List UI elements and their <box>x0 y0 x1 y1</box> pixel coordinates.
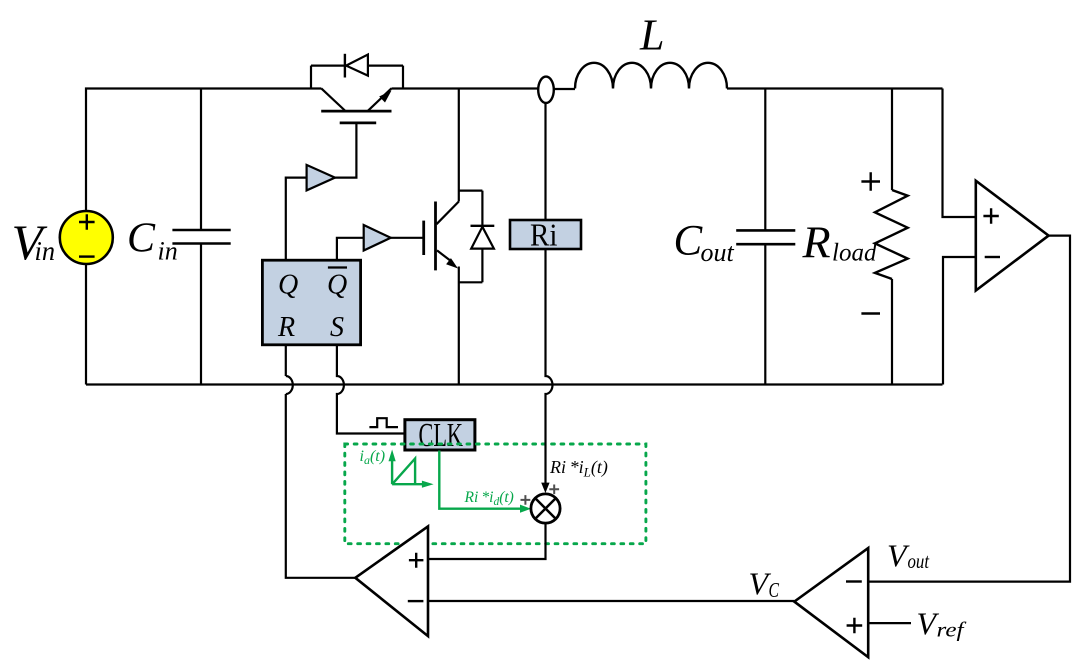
wire diode D2 vertical <box>481 191 483 283</box>
svg-text:C: C <box>127 216 156 262</box>
wire buffer B1 to IGBT1 gate <box>335 123 356 178</box>
wire op-amp output to error amp - input <box>868 236 1070 582</box>
wire emitter to diode D2 bottom <box>459 281 483 283</box>
wire Rload bottom <box>891 279 893 385</box>
svg-text:in: in <box>158 237 178 266</box>
transistor Q1 (IGBT series switch) <box>321 88 391 123</box>
green arrowhead into summer <box>520 505 531 513</box>
wire current sense upper <box>544 103 546 220</box>
wire current sense lower with hop <box>546 249 553 488</box>
wire S line to CLK with hop <box>337 345 405 434</box>
voltage source Vin <box>60 211 113 264</box>
buffer B1 <box>307 165 335 191</box>
arrowhead into summer top <box>541 483 549 493</box>
plus sign above-right of summer <box>549 485 559 495</box>
svg-text:R: R <box>277 312 295 343</box>
wire bottom bus <box>86 383 943 385</box>
svg-text:R: R <box>802 217 831 268</box>
wire comparator output to R <box>286 345 356 578</box>
wire Vin bottom <box>85 264 87 385</box>
plus sign above Rload <box>861 172 880 191</box>
svg-text:load: load <box>832 240 877 267</box>
minus sign below Rload <box>861 312 880 314</box>
svg-text:Ri *iL(t): Ri *iL(t) <box>549 457 608 480</box>
RS flip-flop U1 <box>262 260 360 345</box>
svg-text:Q: Q <box>327 270 347 301</box>
wire IGBT2 collector drop <box>458 89 460 202</box>
wire collector to diode D2 top <box>459 190 483 192</box>
error amplifier U4 <box>794 548 868 657</box>
wire diode D1 branch <box>311 64 403 66</box>
wire op-amp - input <box>943 257 976 385</box>
wire top bus left (Vin to switch) <box>86 89 321 212</box>
wire buffer B2 to IGBT2 gate <box>391 237 424 239</box>
wire Cout bottom <box>764 244 766 384</box>
comparator U2 <box>355 526 428 636</box>
wire Cin top <box>200 89 202 231</box>
transistor Q2 (IGBT freewheel switch) <box>424 202 459 271</box>
wire Cout top <box>764 89 766 231</box>
hop of R line over bus <box>286 376 293 394</box>
svg-text:Q: Q <box>278 270 298 301</box>
plus sign left of summer <box>521 495 531 505</box>
clock CLK box <box>405 420 475 450</box>
inductor L <box>575 63 727 89</box>
ramp sawtooth <box>393 459 415 485</box>
sense resistor Ri box <box>510 220 581 249</box>
svg-text:Ri: Ri <box>530 217 558 253</box>
wire error amp + input stub (Vref) <box>868 622 911 624</box>
svg-text:Ri *id(t): Ri *id(t) <box>464 489 514 508</box>
wire Rload top <box>891 89 893 191</box>
wire green CLK to summer <box>439 451 520 509</box>
svg-text:C: C <box>674 218 704 265</box>
svg-text:out: out <box>701 238 735 267</box>
current sensor ellipse <box>538 77 554 103</box>
ramp waveform arrowheads <box>389 450 434 488</box>
ramp waveform axes <box>392 459 423 484</box>
svg-text:ia(t): ia(t) <box>360 448 386 467</box>
clock pulse icon <box>369 418 398 427</box>
summer (multiplier) node <box>531 494 560 523</box>
wire top bus right <box>727 87 943 89</box>
svg-text:CLK: CLK <box>419 417 464 454</box>
wire sensor to inductor <box>554 88 575 90</box>
wire Cin bottom <box>200 244 202 385</box>
svg-text:S: S <box>330 312 344 343</box>
wire to op-amp + input <box>943 89 976 218</box>
wire IGBT2 emitter down <box>458 267 460 385</box>
op-amp U3 (output sense) <box>976 181 1049 291</box>
wire switch left stub <box>310 66 312 90</box>
svg-text:C: C <box>769 578 780 602</box>
slope-compensation dashed box <box>345 444 646 544</box>
capacitor Cout <box>736 230 795 244</box>
diode D1 (antiparallel of IGBT1) <box>344 54 346 78</box>
resistor Rload <box>875 190 908 279</box>
svg-text:in: in <box>35 236 56 266</box>
buffer B2 <box>364 225 391 251</box>
wire summer to comparator + input <box>428 522 546 559</box>
wire switch right stub <box>402 66 404 89</box>
capacitor Cin <box>172 230 230 244</box>
diode D2 (freewheel diode) <box>471 225 495 227</box>
svg-text:L: L <box>639 11 664 60</box>
svg-text:out: out <box>908 549 930 573</box>
wire comparator - input (VC line) <box>428 600 794 602</box>
svg-text:ref: ref <box>937 618 968 642</box>
wire Q to buffer B1 <box>286 178 307 261</box>
wire Qbar to buffer B2 <box>337 238 364 260</box>
wire top bus middle <box>392 87 539 89</box>
